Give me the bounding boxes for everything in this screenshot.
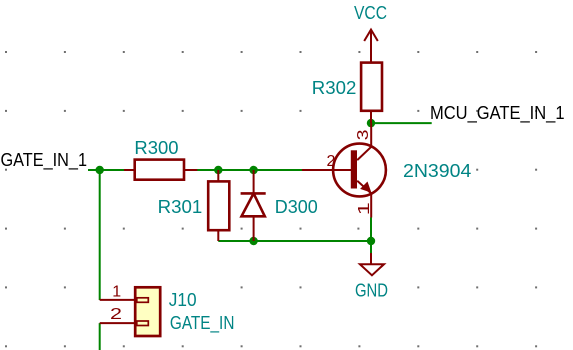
junction collector node [367,119,375,127]
svg-text:2N3904: 2N3904 [403,160,471,181]
wire GATE_IN_1 label to R300 [88,169,125,171]
connector J10 [100,287,161,336]
resistor R300 [124,160,197,180]
svg-text:GND: GND [355,280,388,301]
svg-text:D300: D300 [275,196,318,217]
svg-text:R301: R301 [158,196,203,217]
svg-text:VCC: VCC [354,2,387,23]
wire GATE_IN_1 vertical down to J10 pin 1 [99,170,101,300]
svg-text:GATE_IN_1: GATE_IN_1 [1,149,88,171]
junction D300 bottom [249,237,257,245]
power symbol VCC [364,30,378,63]
svg-text:GATE_IN: GATE_IN [170,312,235,334]
wire J10 pin 2 down [99,323,101,350]
svg-text:2: 2 [110,306,122,323]
wire collector to MCU_GATE_IN_1 label [371,122,432,124]
svg-text:2: 2 [327,153,336,170]
junction D300 top [249,166,257,174]
wire bottom net R301 D300 emitter [218,240,371,242]
ground symbol [360,253,384,275]
svg-text:J10: J10 [169,289,197,310]
resistor R302 [361,45,382,123]
wire emitter to GND [370,218,372,254]
junction R301 top [214,166,222,174]
resistor R301 [208,170,229,241]
svg-text:R300: R300 [134,137,178,158]
svg-text:1: 1 [356,202,373,215]
svg-text:R302: R302 [312,77,357,98]
diode D300 [241,170,266,241]
transistor Q300 2N3904 [302,123,386,217]
svg-text:MCU_GATE_IN_1: MCU_GATE_IN_1 [430,102,565,124]
junction node GATE_IN_1 [96,166,104,174]
junction emitter GND node [367,237,375,245]
svg-text:3: 3 [355,129,372,140]
wire R300 to Q300 base [197,169,302,171]
svg-text:1: 1 [112,284,121,301]
